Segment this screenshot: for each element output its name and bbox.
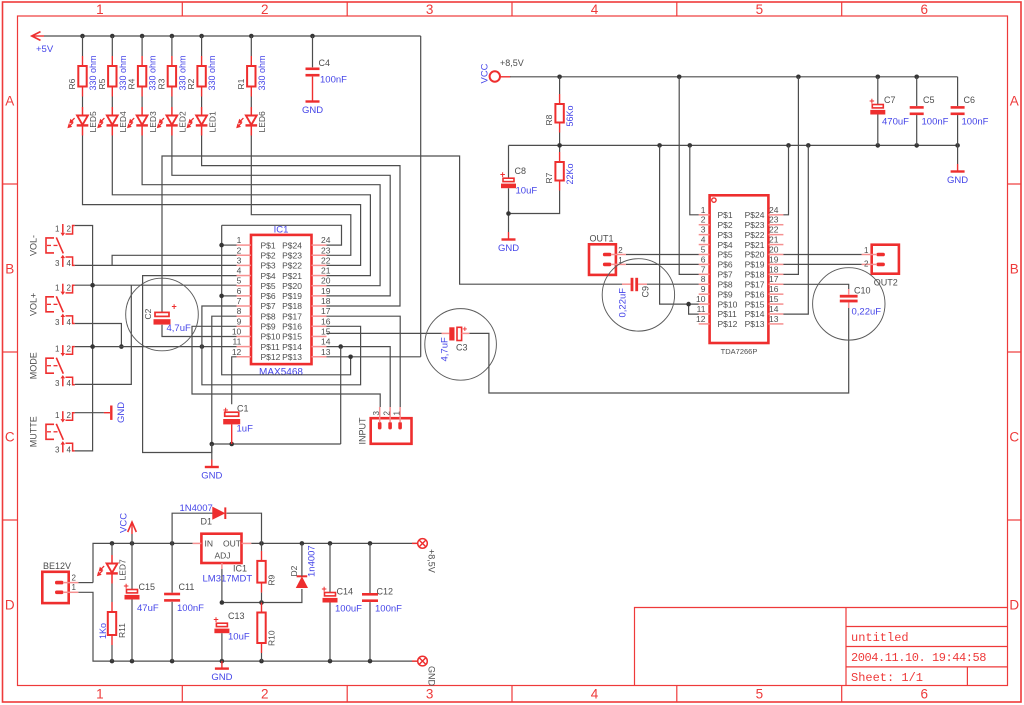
svg-text:IC1: IC1 bbox=[233, 564, 247, 574]
svg-text:R3: R3 bbox=[156, 78, 166, 89]
svg-text:P$11: P$11 bbox=[718, 309, 737, 319]
svg-text:2: 2 bbox=[67, 411, 72, 420]
svg-text:13: 13 bbox=[769, 314, 779, 324]
svg-text:R9: R9 bbox=[266, 574, 276, 585]
svg-text:P$18: P$18 bbox=[282, 301, 302, 311]
node rail-R5 bbox=[110, 34, 115, 39]
svg-text:12: 12 bbox=[232, 347, 242, 357]
wire TDA pin17 to C10 top bbox=[783, 284, 848, 289]
wire mid line down to TDA pin1 bbox=[690, 145, 699, 214]
svg-text:4: 4 bbox=[67, 445, 72, 454]
node top rail bbox=[259, 541, 264, 546]
svg-text:P$2: P$2 bbox=[718, 220, 733, 230]
junction pin14 bbox=[338, 344, 343, 349]
svg-text:BE12V: BE12V bbox=[43, 561, 71, 571]
VCC arrow bottom bbox=[128, 522, 137, 534]
wire switch bus vertical bbox=[75, 226, 93, 451]
resistor R7 bbox=[544, 152, 575, 191]
svg-text:P$19: P$19 bbox=[282, 291, 302, 301]
node bottom rail bbox=[170, 659, 175, 664]
node rail-C7 bbox=[876, 75, 881, 80]
svg-text:D1: D1 bbox=[201, 517, 213, 527]
node rail-TDA pin18 bbox=[796, 75, 801, 80]
svg-text:MUTTE: MUTTE bbox=[28, 416, 38, 447]
LED LED7 bbox=[111, 543, 113, 555]
svg-text:MAX5468: MAX5468 bbox=[259, 367, 303, 378]
svg-text:16: 16 bbox=[769, 284, 779, 294]
svg-text:4,7uF: 4,7uF bbox=[439, 337, 450, 361]
svg-text:24: 24 bbox=[321, 235, 331, 245]
wire R5 to LED4 bbox=[111, 97, 113, 108]
svg-text:P$13: P$13 bbox=[745, 319, 765, 329]
svg-text:5: 5 bbox=[701, 244, 706, 254]
svg-text:P$15: P$15 bbox=[282, 332, 302, 342]
svg-text:P$24: P$24 bbox=[745, 210, 765, 220]
svg-text:3: 3 bbox=[55, 379, 60, 388]
svg-text:7: 7 bbox=[237, 296, 242, 306]
wire C9 right to TDA pin8 bbox=[638, 283, 647, 285]
capacitor C1 1uF bbox=[223, 405, 240, 424]
wire IC1 pin8 to ground line bbox=[212, 316, 237, 444]
capacitor C11 plates bbox=[164, 593, 180, 602]
junction ADJ/C13 bbox=[220, 600, 225, 605]
connector INPUT bbox=[371, 407, 412, 444]
svg-text:P$6: P$6 bbox=[261, 291, 276, 301]
node bottom rail bbox=[328, 659, 333, 664]
svg-text:P$24: P$24 bbox=[282, 240, 302, 250]
svg-text:3: 3 bbox=[237, 255, 242, 265]
capacitor C15 47uF bbox=[131, 543, 133, 589]
capacitor C15 plates bbox=[124, 581, 140, 600]
wire TDA pin10 to pin11 bridge bbox=[689, 304, 699, 314]
svg-text:100nF: 100nF bbox=[922, 117, 949, 128]
capacitor C7 470uF bbox=[877, 77, 879, 105]
svg-text:19: 19 bbox=[769, 254, 779, 264]
node bottom rail bbox=[110, 659, 115, 664]
junction R9/R10 bbox=[259, 600, 264, 605]
svg-text:A: A bbox=[5, 94, 14, 109]
svg-text:GND: GND bbox=[947, 175, 968, 186]
TDA7266P pins left 1-12 bbox=[696, 205, 738, 329]
svg-text:P$2: P$2 bbox=[261, 250, 276, 260]
wire +5V down to IC1 pin13 bbox=[420, 36, 422, 357]
node rail-R2 bbox=[199, 34, 204, 39]
capacitor C11 100nF bbox=[171, 543, 173, 592]
switch S2 VOL+ bbox=[28, 283, 75, 327]
svg-text:9: 9 bbox=[701, 284, 706, 294]
capacitor C3 4,7uF polarized bbox=[449, 325, 467, 341]
wire TDA pin20 to OUT2 pin1 bbox=[783, 254, 861, 256]
node top rail bbox=[300, 541, 305, 546]
capacitor C7 plates bbox=[869, 96, 885, 115]
svg-text:P$10: P$10 bbox=[718, 299, 738, 309]
capacitor C9 circle outline bbox=[602, 259, 674, 331]
wire LED5 to IC1 pin22 bbox=[83, 136, 361, 266]
node bottom rail bbox=[220, 659, 225, 664]
switch S1 VOL- bbox=[28, 224, 75, 268]
svg-text:P$6: P$6 bbox=[718, 260, 733, 270]
title block outline bbox=[635, 608, 1008, 686]
svg-text:P$9: P$9 bbox=[261, 322, 276, 332]
svg-text:P$3: P$3 bbox=[718, 230, 733, 240]
svg-text:C3: C3 bbox=[456, 343, 468, 353]
svg-text:P$12: P$12 bbox=[261, 352, 281, 362]
svg-text:14: 14 bbox=[769, 304, 779, 314]
svg-text:GND: GND bbox=[201, 471, 222, 482]
ground power bbox=[211, 661, 232, 683]
wire bottom section top rail bbox=[93, 543, 193, 582]
svg-text:100nF: 100nF bbox=[177, 603, 204, 614]
svg-text:6: 6 bbox=[920, 2, 928, 17]
resistor R2 330 ohm bbox=[186, 55, 217, 96]
capacitor C14 100uF bbox=[329, 543, 331, 592]
capacitor C4 plates bbox=[306, 68, 320, 77]
svg-text:2: 2 bbox=[618, 246, 623, 255]
svg-text:P$4: P$4 bbox=[261, 271, 276, 281]
svg-text:C10: C10 bbox=[854, 286, 871, 296]
svg-text:17: 17 bbox=[321, 306, 331, 316]
IC1 pins right 24-13 bbox=[282, 235, 331, 362]
svg-text:R6: R6 bbox=[67, 78, 77, 89]
svg-text:100nF: 100nF bbox=[320, 75, 347, 86]
svg-text:C2: C2 bbox=[143, 308, 153, 319]
svg-text:3: 3 bbox=[426, 2, 434, 17]
svg-text:2: 2 bbox=[261, 687, 269, 702]
svg-text:OUT1: OUT1 bbox=[590, 234, 614, 244]
wire IC1 pin9 to INPUT pin3 bbox=[192, 326, 380, 407]
connector OUT2 bbox=[862, 245, 899, 274]
svg-text:14: 14 bbox=[321, 337, 331, 347]
frame column dividers bottom band bbox=[181, 686, 183, 703]
wire VOL+ pin2 to IC1 pin5 bbox=[75, 284, 237, 286]
wire MODE pin4 up to pin5 net bbox=[75, 285, 132, 384]
svg-text:P$3: P$3 bbox=[261, 261, 276, 271]
wire R4 to LED3 bbox=[141, 97, 143, 108]
capacitor C5 100nF bbox=[916, 77, 918, 106]
svg-text:R1: R1 bbox=[236, 78, 246, 89]
wire IC1 pin13 to +5V vertical bbox=[327, 356, 421, 358]
svg-text:1: 1 bbox=[864, 246, 869, 255]
svg-text:R11: R11 bbox=[117, 623, 127, 638]
wire MUTTE pin2 to ground bbox=[75, 412, 104, 414]
svg-text:untitled: untitled bbox=[851, 631, 909, 645]
junction bus pin11 bbox=[90, 344, 95, 349]
wire +5V rail bbox=[44, 35, 421, 37]
svg-text:+8,5V: +8,5V bbox=[427, 549, 437, 573]
wire ADJ node bbox=[222, 569, 302, 603]
junction bus pin5 bbox=[90, 283, 95, 288]
svg-text:1n4007: 1n4007 bbox=[307, 545, 318, 577]
svg-text:2: 2 bbox=[261, 2, 269, 17]
svg-text:2: 2 bbox=[72, 574, 77, 583]
LED LED1 bbox=[187, 107, 218, 136]
wire IC1 pin7 loop to pin16 bbox=[202, 306, 361, 385]
resistor R3 330 ohm bbox=[156, 55, 187, 96]
node top rail bbox=[130, 541, 135, 546]
svg-text:2: 2 bbox=[67, 283, 72, 292]
svg-text:GND: GND bbox=[302, 105, 323, 116]
ground below C1 bbox=[201, 460, 222, 482]
svg-text:C: C bbox=[5, 430, 15, 445]
svg-text:10uF: 10uF bbox=[516, 186, 538, 197]
svg-text:P$22: P$22 bbox=[745, 230, 765, 240]
svg-text:Sheet: 1/1: Sheet: 1/1 bbox=[851, 671, 923, 685]
svg-text:IN: IN bbox=[205, 539, 214, 549]
svg-text:+8,5V: +8,5V bbox=[500, 58, 524, 68]
wire R1 to LED6 bbox=[250, 97, 252, 108]
svg-text:VOL+: VOL+ bbox=[28, 293, 38, 316]
capacitor C8 10uF bbox=[508, 145, 510, 178]
ground below C4 bbox=[302, 94, 323, 116]
svg-text:P$8: P$8 bbox=[261, 311, 276, 321]
wire ground line below IC1 bbox=[212, 443, 341, 445]
wire IC1 pin12 to C1 bbox=[232, 357, 237, 404]
svg-text:LED1: LED1 bbox=[207, 111, 217, 133]
node mid-pin10 drop bbox=[657, 143, 662, 148]
VCC supply terminal bbox=[490, 71, 511, 81]
svg-text:20: 20 bbox=[321, 276, 331, 286]
svg-text:2: 2 bbox=[864, 260, 869, 269]
resistor R10 bbox=[257, 603, 276, 654]
wire R2 to LED1 bbox=[201, 97, 203, 108]
svg-text:+: + bbox=[172, 302, 177, 312]
wire R11 bottom bbox=[111, 645, 113, 661]
svg-text:C11: C11 bbox=[179, 582, 195, 592]
node rail-R6 bbox=[80, 34, 85, 39]
svg-text:1: 1 bbox=[96, 2, 104, 17]
svg-text:2: 2 bbox=[701, 215, 706, 225]
svg-text:P$15: P$15 bbox=[745, 299, 765, 309]
svg-text:C1: C1 bbox=[237, 404, 249, 414]
LED LED3 bbox=[127, 107, 158, 136]
svg-text:4: 4 bbox=[591, 2, 599, 17]
resistor R11 1Ko bbox=[111, 584, 113, 603]
wire C1 bottom bbox=[231, 424, 233, 444]
svg-text:4,7uF: 4,7uF bbox=[167, 323, 191, 334]
svg-text:4: 4 bbox=[591, 687, 599, 702]
wire IC1 pin14 to INPUT pin2 bbox=[327, 347, 391, 407]
capacitor C3 circle outline bbox=[425, 309, 497, 381]
frame row dividers right band bbox=[1008, 183, 1022, 185]
connector BE12V bbox=[42, 572, 78, 603]
junction pin6 bbox=[219, 294, 224, 299]
svg-text:100nF: 100nF bbox=[375, 604, 402, 615]
svg-text:VCC: VCC bbox=[480, 63, 491, 83]
svg-text:R5: R5 bbox=[97, 78, 107, 89]
capacitor C8 plates bbox=[500, 170, 516, 189]
svg-text:LED7: LED7 bbox=[118, 559, 128, 581]
wire mid line down to TDA pin10 bbox=[660, 145, 699, 304]
wire C8 bottom bbox=[508, 188, 510, 232]
svg-text:3: 3 bbox=[55, 318, 60, 327]
junction pin11 drop bbox=[200, 344, 205, 349]
node rail-R8 bbox=[557, 75, 562, 80]
svg-text:P$22: P$22 bbox=[282, 261, 302, 271]
IC1 pins left 1-12 bbox=[232, 235, 281, 362]
svg-text:2: 2 bbox=[237, 245, 242, 255]
node mid-pin24 drop bbox=[786, 143, 791, 148]
wire VOL- pin4 to IC1 pin3 bbox=[75, 264, 237, 266]
capacitor C6 plates bbox=[951, 106, 965, 115]
svg-text:17: 17 bbox=[769, 274, 779, 284]
wire pin14 net to ground line bbox=[340, 347, 342, 444]
svg-text:2: 2 bbox=[67, 345, 72, 354]
svg-text:10uF: 10uF bbox=[228, 632, 250, 643]
svg-text:4: 4 bbox=[237, 266, 242, 276]
svg-text:LED4: LED4 bbox=[118, 111, 128, 133]
svg-text:15: 15 bbox=[769, 294, 779, 304]
svg-text:GND: GND bbox=[498, 243, 519, 254]
svg-text:C13: C13 bbox=[228, 611, 245, 621]
node bottom rail bbox=[259, 659, 264, 664]
wire LED2 to IC1 pin19 bbox=[172, 136, 390, 296]
svg-text:C7: C7 bbox=[884, 95, 896, 105]
svg-text:1N4007: 1N4007 bbox=[180, 503, 213, 514]
LED LED5 bbox=[67, 107, 98, 136]
svg-text:P$23: P$23 bbox=[282, 250, 302, 260]
wire +8,5V rail bbox=[510, 76, 958, 78]
wire C6 to ground bbox=[957, 145, 959, 164]
svg-text:6: 6 bbox=[237, 286, 242, 296]
svg-text:LED5: LED5 bbox=[88, 111, 98, 133]
svg-text:7: 7 bbox=[701, 264, 706, 274]
svg-text:P$20: P$20 bbox=[745, 250, 765, 260]
node bottom rail bbox=[130, 659, 135, 664]
svg-text:5: 5 bbox=[756, 2, 764, 17]
svg-text:INPUT: INPUT bbox=[358, 417, 368, 445]
node top rail bbox=[110, 541, 115, 546]
svg-text:B: B bbox=[1010, 262, 1019, 277]
frame row dividers left band bbox=[3, 183, 18, 185]
svg-text:15: 15 bbox=[321, 326, 331, 336]
node bottom rail bbox=[368, 659, 373, 664]
GND output terminal bbox=[412, 656, 427, 666]
svg-text:LED3: LED3 bbox=[148, 111, 158, 133]
wire TDA pin14 up to mid line bbox=[783, 145, 808, 314]
svg-text:4: 4 bbox=[701, 235, 706, 245]
wire IC1 pin1 net to pin24 bbox=[222, 225, 342, 245]
capacitor C12 plates bbox=[362, 593, 378, 602]
svg-text:P$21: P$21 bbox=[282, 271, 302, 281]
svg-text:B: B bbox=[5, 262, 14, 277]
junction C1 bottom bbox=[229, 442, 234, 447]
svg-text:1: 1 bbox=[72, 583, 77, 592]
op-amp/digipot IC1 MAX5468 body bbox=[251, 235, 312, 364]
wire C3 right to C10 bottom bbox=[462, 332, 470, 334]
svg-text:+: + bbox=[463, 325, 468, 334]
svg-text:OUT2: OUT2 bbox=[874, 278, 898, 288]
wire mid distribution line bbox=[509, 144, 958, 146]
svg-text:0,22uF: 0,22uF bbox=[618, 288, 629, 318]
svg-text:VCC: VCC bbox=[119, 513, 130, 533]
svg-text:VOL-: VOL- bbox=[28, 235, 38, 256]
svg-text:20: 20 bbox=[769, 244, 779, 254]
svg-text:LM317MDT: LM317MDT bbox=[203, 574, 253, 585]
svg-text:LED2: LED2 bbox=[178, 111, 188, 133]
capacitor C10 circle outline bbox=[813, 268, 885, 340]
resistor R5 330 ohm bbox=[97, 55, 128, 96]
svg-text:19: 19 bbox=[321, 286, 331, 296]
svg-text:100nF: 100nF bbox=[962, 117, 989, 128]
wire TDA pin19 to OUT2 pin2 bbox=[783, 263, 861, 265]
svg-text:C6: C6 bbox=[964, 95, 976, 105]
svg-text:GND: GND bbox=[116, 402, 127, 423]
ground below C8 bbox=[498, 232, 519, 254]
capacitor C12 100nF bbox=[369, 543, 371, 593]
svg-text:330 ohm: 330 ohm bbox=[207, 55, 217, 90]
svg-text:100uF: 100uF bbox=[335, 604, 362, 615]
svg-text:P$10: P$10 bbox=[261, 332, 281, 342]
svg-text:R4: R4 bbox=[127, 78, 137, 89]
svg-text:P$11: P$11 bbox=[261, 342, 280, 352]
wire MODE pin2 to IC1 pin11 bbox=[75, 346, 237, 348]
svg-text:6: 6 bbox=[920, 687, 928, 702]
svg-text:MODE: MODE bbox=[28, 352, 38, 379]
wire R8 bottom bbox=[559, 133, 561, 153]
svg-text:R7: R7 bbox=[544, 172, 554, 183]
svg-text:P$13: P$13 bbox=[282, 352, 302, 362]
svg-text:10: 10 bbox=[232, 326, 242, 336]
node top rail bbox=[328, 541, 333, 546]
svg-text:3: 3 bbox=[55, 259, 60, 268]
svg-text:P$12: P$12 bbox=[718, 319, 738, 329]
svg-text:OUT: OUT bbox=[223, 539, 241, 549]
svg-text:P$7: P$7 bbox=[261, 301, 276, 311]
svg-text:1Ko: 1Ko bbox=[98, 623, 108, 639]
svg-text:21: 21 bbox=[769, 235, 779, 245]
wire rail to R6 bbox=[82, 36, 84, 56]
svg-text:IC1: IC1 bbox=[274, 225, 289, 236]
svg-text:P$7: P$7 bbox=[718, 270, 733, 280]
svg-text:5: 5 bbox=[756, 687, 764, 702]
svg-text:1: 1 bbox=[393, 411, 402, 416]
power amp IC TDA7266P body bbox=[710, 195, 769, 343]
node top rail bbox=[170, 541, 175, 546]
svg-text:P$5: P$5 bbox=[261, 281, 276, 291]
svg-text:C9: C9 bbox=[641, 286, 651, 298]
switch S4 MUTTE bbox=[28, 411, 75, 455]
svg-text:P$16: P$16 bbox=[745, 289, 765, 299]
wire TDA pin18 up to rail bbox=[783, 77, 798, 275]
resistor R6 330 ohm bbox=[67, 55, 98, 96]
capacitor C2 4,7uF bbox=[154, 302, 177, 325]
svg-text:1: 1 bbox=[96, 687, 104, 702]
resistor R1 330 ohm bbox=[236, 55, 267, 96]
svg-text:4: 4 bbox=[67, 379, 72, 388]
wire C2 top to C9 via bus bbox=[162, 156, 622, 312]
+8,5V output terminal bbox=[412, 539, 427, 549]
diode D2 1n4007 bbox=[297, 576, 308, 587]
wire TDA pin6 to OUT1 bbox=[626, 263, 699, 265]
svg-text:47uF: 47uF bbox=[137, 603, 159, 614]
LED LED2 bbox=[157, 107, 188, 136]
wire rail to R1 bbox=[250, 36, 252, 56]
svg-text:D: D bbox=[5, 598, 15, 613]
node rail-C5 bbox=[914, 75, 919, 80]
svg-text:P$18: P$18 bbox=[745, 270, 765, 280]
svg-text:9: 9 bbox=[237, 316, 242, 326]
svg-text:P$17: P$17 bbox=[282, 311, 302, 321]
wire pin4 long drop bbox=[143, 276, 237, 453]
svg-text:4: 4 bbox=[67, 318, 72, 327]
svg-text:16: 16 bbox=[321, 316, 331, 326]
svg-text:23: 23 bbox=[321, 245, 331, 255]
svg-text:22: 22 bbox=[769, 225, 779, 235]
junction C8/R7 bbox=[506, 211, 511, 216]
capacitor C5 plates bbox=[910, 106, 924, 115]
svg-text:11: 11 bbox=[232, 337, 241, 347]
wire TDA pin24 up to mid line bbox=[783, 145, 788, 214]
